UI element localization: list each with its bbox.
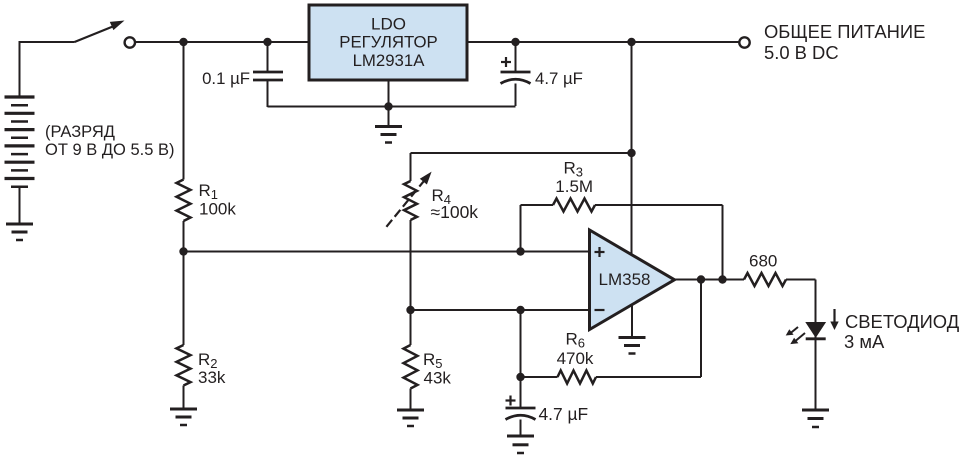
svg-text:LM358: LM358 [599,270,651,289]
capacitor C1 0.1uF [202,42,283,107]
wire [410,389,412,411]
node junction divider tap [179,247,187,255]
wire [467,41,739,43]
switch S1 [75,21,136,48]
svg-text:≈100k: ≈100k [431,202,479,222]
node junction R4 top [627,149,635,157]
svg-text:4.7 µF: 4.7 µF [539,404,589,424]
wire [19,41,75,43]
wire [411,309,590,311]
resistor R6 [521,280,702,384]
node junction R3 leg [516,247,524,255]
ground [619,338,646,354]
svg-text:4.7 µF: 4.7 µF [535,69,583,88]
op-amp U1 LM358 [590,230,675,330]
label current arrow [830,309,838,330]
node junction C1 top [263,38,271,46]
svg-text:LDO: LDO [371,15,406,34]
wire [183,386,185,410]
svg-text:43k: 43k [424,369,452,388]
wire [184,251,590,253]
wire [136,41,309,43]
svg-text:ОТ 9 В ДО 5.5 В): ОТ 9 В ДО 5.5 В) [45,141,174,159]
regulator U2 LDO LM2931A [309,5,467,80]
node junction C3 top [516,373,524,381]
node junction R3 output [718,275,726,283]
resistor R1 [177,180,237,222]
svg-text:СВЕТОДИОД: СВЕТОДИОД [845,311,960,332]
wire [631,304,633,338]
node junction R6 output [697,275,705,283]
wire [19,187,21,224]
ground [375,127,402,143]
resistor R3 [521,159,723,280]
wire [268,106,516,108]
battery B1 [5,97,35,187]
svg-text:5.0 В DC: 5.0 В DC [764,42,839,63]
svg-text:33k: 33k [198,368,226,387]
wire [388,80,390,127]
svg-text:ОБЩЕЕ ПИТАНИЕ: ОБЩЕЕ ПИТАНИЕ [764,21,925,42]
node junction inverting wire [406,306,414,314]
node junction C2 top [511,38,519,46]
capacitor C2 4.7uF [501,42,583,106]
svg-text:0.1 µF: 0.1 µF [202,69,250,88]
svg-text:РЕГУЛЯТОР: РЕГУЛЯТОР [339,32,437,51]
svg-text:470k: 470k [557,349,594,368]
label battery range [45,123,174,159]
wire [815,280,817,340]
node junction ground net [384,102,392,110]
ground [170,409,197,425]
node junction R1 top [179,38,187,46]
wire [631,42,633,256]
ground [6,224,33,240]
wire [19,42,21,97]
label supply output [764,21,925,63]
resistor R2 [177,345,226,387]
svg-text:100k: 100k [199,199,236,218]
resistor R7 680 [744,251,786,286]
svg-text:3 мА: 3 мА [844,331,885,352]
svg-text:(РАЗРЯД: (РАЗРЯД [45,123,115,141]
svg-text:680: 680 [749,251,777,270]
diode D1 LED [786,323,826,345]
capacitor C3 4.7uF [506,377,589,436]
wire [675,279,745,281]
wire [410,153,412,181]
wire [815,339,817,410]
ground [802,410,829,427]
svg-text:1.5M: 1.5M [555,177,593,196]
node junction R6 leg [516,306,524,314]
wire [410,220,412,345]
node output terminal [739,37,749,47]
wire [411,152,632,154]
wire [183,252,185,346]
wire [183,221,185,252]
node junction supply drop [627,38,635,46]
resistor R4 potentiometer [386,172,478,227]
wire [786,279,816,281]
ground [507,436,534,453]
wire [183,42,185,180]
svg-text:LM2931A: LM2931A [353,51,426,70]
ground [397,410,424,426]
resistor R5 [404,345,452,389]
label LED [844,311,960,352]
